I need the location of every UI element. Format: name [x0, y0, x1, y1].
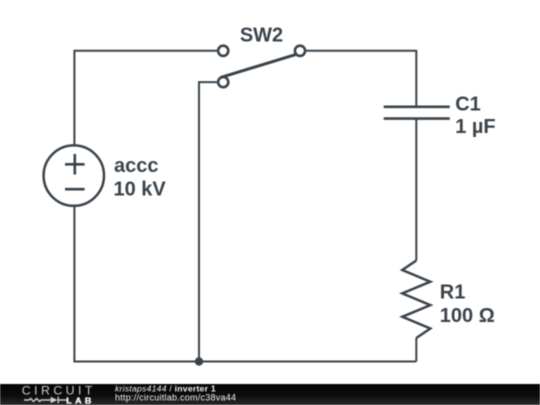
switch SW2 blade — [221, 55, 296, 78]
voltage source plus sign — [65, 154, 85, 175]
voltage source accc (circle) — [44, 145, 104, 205]
wire resistor R1 bottom to bottom net — [415, 338, 417, 362]
junction dot on bottom net — [195, 357, 203, 365]
switch SW2 common terminal — [218, 77, 228, 87]
footer bar — [0, 384, 540, 405]
wire bottom net — [74, 207, 416, 362]
capacitor C1 top plate — [384, 106, 450, 109]
svg-text:LAB: LAB — [66, 396, 94, 405]
voltage source minus sign — [65, 188, 85, 191]
wire from SW2 common terminal down to bottom net — [199, 82, 217, 361]
switch SW2 right terminal — [295, 46, 305, 56]
wire from SW2 right terminal to capacitor C1 top — [306, 51, 416, 106]
capacitor C1 bottom plate — [384, 117, 450, 120]
wire capacitor C1 bottom to resistor R1 — [415, 119, 417, 260]
wire top from source to SW2 left terminal — [74, 51, 216, 145]
switch SW2 left terminal — [218, 46, 228, 56]
svg-text:http://circuitlab.com/c38va44: http://circuitlab.com/c38va44 — [115, 392, 236, 402]
resistor R1 zigzag — [402, 261, 430, 339]
CircuitLab logo resistor squiggle and diode — [24, 397, 67, 403]
